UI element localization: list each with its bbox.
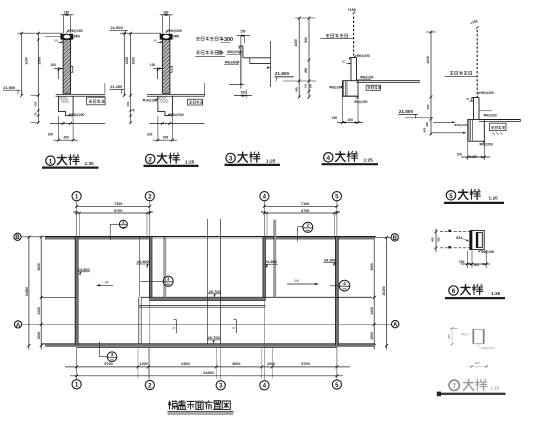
svg-text:1: 1 xyxy=(122,220,125,225)
svg-text:200: 200 xyxy=(163,136,169,140)
svg-text:1:25: 1:25 xyxy=(185,159,195,164)
svg-text:305: 305 xyxy=(310,83,313,88)
svg-text:6700: 6700 xyxy=(301,209,309,213)
svg-text:100: 100 xyxy=(304,83,307,88)
svg-text:3600: 3600 xyxy=(370,263,374,271)
svg-text:2400: 2400 xyxy=(370,307,374,315)
svg-text:1100: 1100 xyxy=(25,57,29,64)
svg-text:1:15: 1:15 xyxy=(491,385,500,390)
svg-text:1Φ8@200: 1Φ8@200 xyxy=(481,346,495,350)
svg-text:4: 4 xyxy=(327,155,331,162)
svg-text:Φ8@200: Φ8@200 xyxy=(481,250,494,254)
svg-text:Φ14: Φ14 xyxy=(456,236,463,240)
svg-text:300: 300 xyxy=(217,49,222,53)
svg-text:1:25: 1:25 xyxy=(364,158,374,163)
svg-text:200: 200 xyxy=(474,263,480,267)
svg-text:1:25: 1:25 xyxy=(266,158,276,163)
svg-text:1400: 1400 xyxy=(294,39,298,47)
svg-text:Φ14: Φ14 xyxy=(462,332,468,336)
svg-text:300: 300 xyxy=(425,122,429,127)
svg-text:Φ6@200: Φ6@200 xyxy=(360,75,373,79)
svg-text:24.300: 24.300 xyxy=(78,267,91,272)
svg-text:2400: 2400 xyxy=(37,307,41,315)
svg-text:200: 200 xyxy=(335,210,340,214)
svg-text:200: 200 xyxy=(472,155,478,159)
svg-text:+150: +150 xyxy=(348,8,356,12)
svg-text:1000: 1000 xyxy=(140,362,148,366)
svg-text:400: 400 xyxy=(34,101,38,106)
svg-text:3Φ6: 3Φ6 xyxy=(173,35,179,39)
svg-text:900: 900 xyxy=(304,37,308,43)
svg-text:1:30: 1:30 xyxy=(85,161,95,166)
svg-text:1000: 1000 xyxy=(267,362,275,366)
svg-text:3: 3 xyxy=(219,383,223,390)
svg-text:B: B xyxy=(15,234,20,241)
svg-text:1: 1 xyxy=(75,194,79,201)
svg-text:100: 100 xyxy=(459,260,465,264)
svg-text:300: 300 xyxy=(436,237,440,242)
svg-text:1440: 1440 xyxy=(426,56,430,64)
svg-text:10200: 10200 xyxy=(25,287,29,296)
svg-text:150: 150 xyxy=(240,29,246,33)
svg-text:1: 1 xyxy=(75,382,79,389)
svg-text:Φ6@200: Φ6@200 xyxy=(168,29,182,33)
svg-text:26.700: 26.700 xyxy=(208,335,221,340)
svg-text:21.300: 21.300 xyxy=(110,84,122,89)
svg-text:2: 2 xyxy=(148,194,152,201)
svg-text:200: 200 xyxy=(348,118,354,122)
svg-text:Φ8@200: Φ8@200 xyxy=(225,60,238,64)
svg-text:100: 100 xyxy=(332,116,338,120)
svg-text:2: 2 xyxy=(307,223,310,228)
svg-text:7100: 7100 xyxy=(114,202,122,206)
svg-text:4: 4 xyxy=(263,194,267,201)
svg-text:100: 100 xyxy=(147,132,153,136)
svg-text:2: 2 xyxy=(148,382,152,389)
svg-text:4: 4 xyxy=(343,281,346,286)
svg-text:6700: 6700 xyxy=(114,209,122,213)
svg-text:405: 405 xyxy=(294,87,298,92)
svg-text:7: 7 xyxy=(452,383,456,390)
svg-text:Φ6@200: Φ6@200 xyxy=(69,29,83,33)
svg-text:60: 60 xyxy=(54,39,58,43)
svg-text:24.800: 24.800 xyxy=(265,259,278,264)
svg-text:A: A xyxy=(16,322,21,329)
svg-text:24.800: 24.800 xyxy=(324,257,337,262)
svg-text:5: 5 xyxy=(172,327,176,329)
svg-text:100: 100 xyxy=(150,63,156,67)
svg-text:5: 5 xyxy=(335,194,339,201)
svg-text:1400: 1400 xyxy=(125,57,129,65)
svg-text:3: 3 xyxy=(111,352,114,357)
svg-text:5: 5 xyxy=(335,382,339,389)
svg-text:1:20: 1:20 xyxy=(489,196,499,201)
svg-text:1: 1 xyxy=(49,158,53,165)
svg-text:2: 2 xyxy=(148,157,152,164)
svg-text:2000: 2000 xyxy=(37,332,41,340)
svg-text:Φ6@200: Φ6@200 xyxy=(484,114,497,118)
svg-text:100: 100 xyxy=(457,153,463,157)
svg-text:3600: 3600 xyxy=(37,263,41,271)
svg-text:200: 200 xyxy=(475,361,480,365)
svg-text:1%: 1% xyxy=(104,280,109,284)
svg-text:400: 400 xyxy=(423,127,427,132)
svg-text:Φ10@200: Φ10@200 xyxy=(143,99,158,103)
svg-text:5: 5 xyxy=(449,193,453,200)
svg-text:450: 450 xyxy=(304,68,308,74)
svg-text:150: 150 xyxy=(447,334,451,339)
svg-text:6400: 6400 xyxy=(181,362,189,366)
svg-text:450: 450 xyxy=(430,237,434,242)
svg-text:1:25: 1:25 xyxy=(491,291,501,296)
svg-text:26.700: 26.700 xyxy=(209,289,222,294)
svg-text:3Φ6: 3Φ6 xyxy=(74,35,80,39)
svg-text:100: 100 xyxy=(48,132,54,136)
svg-text:2000: 2000 xyxy=(370,332,374,340)
svg-text:21.500: 21.500 xyxy=(399,109,414,114)
svg-text:4000: 4000 xyxy=(232,362,240,366)
svg-text:Φ8@200: Φ8@200 xyxy=(480,143,493,147)
svg-text:5700: 5700 xyxy=(104,362,112,366)
svg-text:5700: 5700 xyxy=(301,362,309,366)
svg-text:24.800: 24.800 xyxy=(137,259,150,264)
svg-text:1%: 1% xyxy=(294,279,299,283)
svg-text:24400: 24400 xyxy=(203,371,214,375)
svg-text:6: 6 xyxy=(452,288,456,295)
svg-text:200: 200 xyxy=(73,210,78,214)
svg-text:10200: 10200 xyxy=(382,286,386,295)
svg-text:Φ8@200: Φ8@200 xyxy=(329,86,342,90)
svg-text:5: 5 xyxy=(232,327,236,329)
svg-text:4: 4 xyxy=(263,383,267,390)
svg-text:21.500: 21.500 xyxy=(275,71,290,76)
svg-text:200: 200 xyxy=(261,210,266,214)
svg-text:50: 50 xyxy=(342,59,346,63)
svg-text:60: 60 xyxy=(153,39,157,43)
svg-text:3: 3 xyxy=(167,277,170,282)
svg-text:1500: 1500 xyxy=(38,57,42,65)
svg-text:100: 100 xyxy=(51,63,57,67)
svg-text:7100: 7100 xyxy=(301,202,309,206)
svg-text:3: 3 xyxy=(229,156,233,163)
svg-text:Φ6@200: Φ6@200 xyxy=(481,91,494,95)
svg-text:400: 400 xyxy=(126,101,130,106)
svg-text:200: 200 xyxy=(241,90,247,94)
svg-text:Φ8@200: Φ8@200 xyxy=(354,100,367,104)
svg-text:A: A xyxy=(393,322,398,329)
svg-text:B: B xyxy=(392,235,397,242)
svg-text:200: 200 xyxy=(148,210,153,214)
svg-text:Φ6@200: Φ6@200 xyxy=(357,54,370,58)
svg-text:500: 500 xyxy=(426,104,430,109)
svg-text:1500: 1500 xyxy=(131,57,135,65)
svg-text:Φ18@200: Φ18@200 xyxy=(454,123,468,127)
svg-text:21.500: 21.500 xyxy=(3,85,15,90)
svg-text:Φ8@200: Φ8@200 xyxy=(227,50,240,54)
svg-text:21.900: 21.900 xyxy=(111,25,124,30)
svg-text:200: 200 xyxy=(63,136,69,140)
svg-text:50: 50 xyxy=(466,97,470,101)
